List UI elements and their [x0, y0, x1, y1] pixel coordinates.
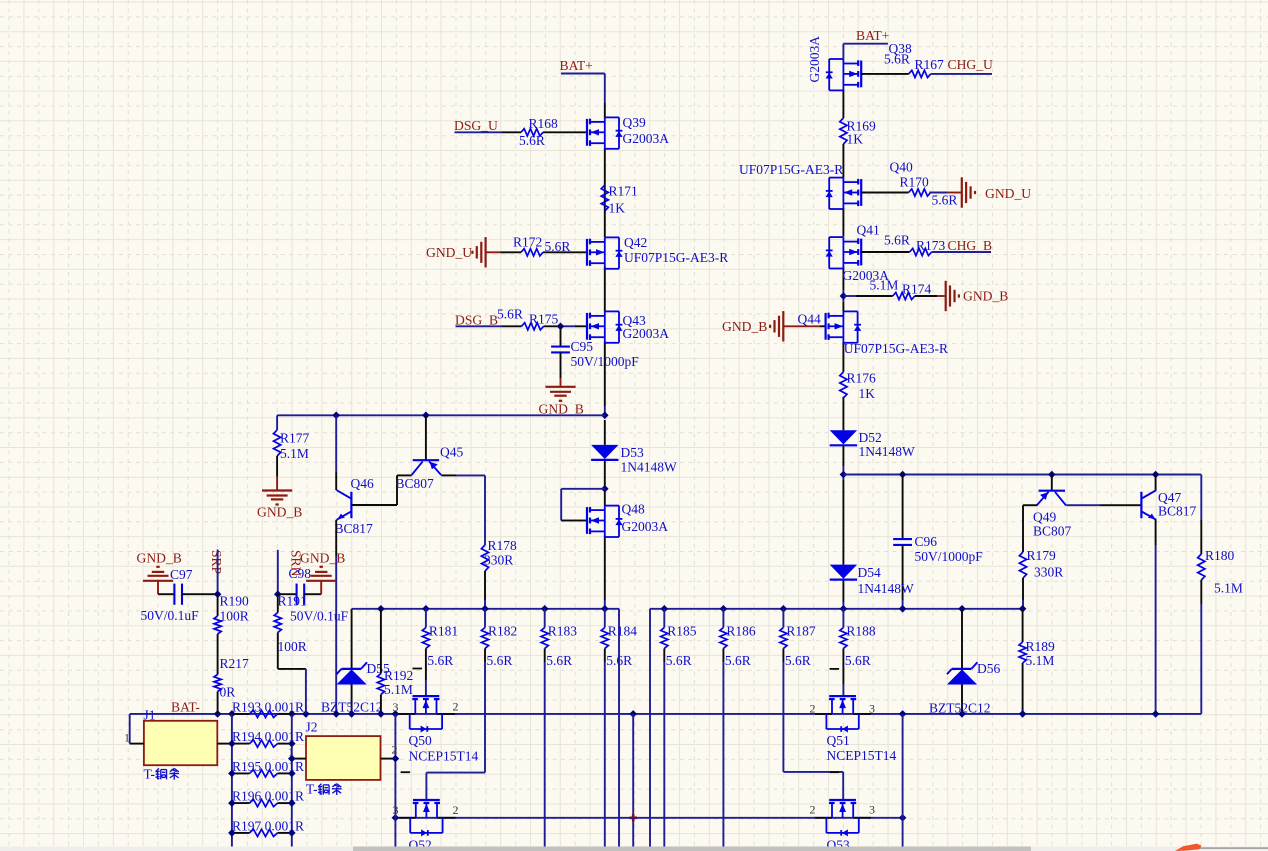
svg-text:GND_B: GND_B	[539, 402, 584, 417]
pin numbers Q52	[393, 803, 459, 817]
svg-text:BC807: BC807	[1033, 524, 1072, 539]
transistor Q43	[587, 311, 669, 342]
resistor R171	[601, 184, 638, 216]
ground GND_B under C95	[539, 387, 584, 417]
resistor R184	[601, 609, 637, 847]
wire net415 horizontal	[277, 414, 605, 416]
wire bus3	[395, 817, 902, 819]
svg-text:R170: R170	[900, 175, 930, 190]
svg-text:3: 3	[869, 702, 875, 716]
resistor R187	[780, 609, 816, 772]
wire J2 pin2	[381, 758, 396, 760]
pin numbers Q50	[393, 669, 459, 715]
svg-text:R167: R167	[915, 57, 945, 72]
svg-text:G2003A: G2003A	[622, 519, 669, 534]
svg-text:2: 2	[810, 803, 816, 817]
resistor R196	[228, 789, 304, 807]
svg-text:G2003A: G2003A	[623, 131, 670, 146]
svg-text:1K: 1K	[847, 131, 864, 146]
svg-text:R193 0.001R: R193 0.001R	[232, 699, 304, 714]
transistor Q44	[798, 311, 949, 356]
svg-text:5.6R: 5.6R	[487, 653, 513, 668]
node bus3 junctions	[392, 814, 907, 822]
svg-text:R183: R183	[548, 624, 578, 639]
svg-text:R173: R173	[916, 238, 946, 253]
svg-text:SRP: SRP	[209, 550, 224, 575]
resistor R177	[274, 415, 310, 476]
svg-text:3: 3	[869, 803, 875, 817]
wire SRN to bus2	[278, 669, 306, 714]
svg-text:1K: 1K	[859, 386, 876, 401]
node SRN junction	[274, 590, 282, 598]
svg-text:Q41: Q41	[857, 223, 880, 238]
wire J2 pin1	[292, 758, 306, 760]
svg-text:UF07P15G-AE3-R: UF07P15G-AE3-R	[844, 341, 948, 356]
node net415 Q45 junction	[422, 412, 430, 420]
resistor R173	[861, 238, 945, 256]
svg-text:GND_U: GND_U	[985, 186, 1031, 201]
resistor R193	[232, 699, 304, 717]
capacitor C97	[141, 567, 218, 623]
net label GND_B Q44	[722, 311, 826, 341]
svg-text:C95: C95	[571, 339, 594, 354]
svg-text:R179: R179	[1027, 548, 1057, 563]
net label GND_U left	[426, 237, 521, 267]
svg-text:Q50: Q50	[409, 733, 432, 748]
value G2003A vertical Q38	[807, 36, 822, 83]
capacitor C95	[551, 326, 639, 387]
wire shunt left vertical	[231, 714, 233, 847]
node bus1 junctions	[377, 605, 1026, 613]
net label DSG_U	[454, 118, 521, 133]
connector J2	[288, 719, 398, 779]
power port BAT+ right	[843, 28, 889, 44]
transistor Q45	[396, 445, 464, 491]
svg-text:3: 3	[393, 700, 399, 714]
transistor Q41	[826, 223, 910, 283]
svg-text:CHG_U: CHG_U	[948, 57, 993, 72]
svg-text:5.6R: 5.6R	[545, 239, 571, 254]
resistor R174	[843, 277, 937, 299]
resistor R185	[661, 609, 697, 847]
node net415 Q46 junction	[332, 412, 340, 420]
svg-text:1N4148W: 1N4148W	[858, 581, 914, 596]
svg-text:J2: J2	[306, 719, 318, 734]
wire Q45 base	[425, 415, 427, 460]
wire net474 horizontal	[843, 475, 1201, 521]
svg-text:2: 2	[392, 743, 398, 757]
value UF07P15G Q40	[739, 162, 843, 177]
svg-text:330R: 330R	[1034, 564, 1063, 579]
svg-text:1K: 1K	[609, 201, 626, 216]
wire Q47 emitter	[1155, 520, 1157, 714]
resistor R189	[1019, 609, 1055, 714]
transistor Q40	[826, 160, 913, 210]
ground GND_B C97	[137, 551, 182, 595]
wire Q46 emitter	[335, 520, 337, 714]
wire Q46 base	[351, 475, 397, 505]
transistor Q53	[815, 800, 871, 851]
svg-text:330R: 330R	[484, 553, 513, 568]
svg-text:D53: D53	[621, 445, 644, 460]
svg-text:Q44: Q44	[798, 311, 821, 326]
node C95 junction	[557, 323, 565, 331]
svg-text:R217: R217	[220, 656, 250, 671]
svg-text:Q42: Q42	[624, 235, 647, 250]
svg-text:0R: 0R	[220, 685, 236, 700]
svg-text:50V/0.1uF: 50V/0.1uF	[290, 608, 349, 623]
svg-text:50V/0.1uF: 50V/0.1uF	[141, 608, 200, 623]
svg-text:GND_B: GND_B	[257, 505, 302, 520]
net label GND_B right	[937, 281, 1008, 311]
transistor Q42	[587, 235, 728, 269]
wire Q48 gate loop	[561, 489, 605, 521]
diode D52	[830, 430, 915, 459]
svg-text:D54: D54	[858, 565, 881, 580]
svg-text:50V/1000pF: 50V/1000pF	[915, 549, 984, 564]
transistor Q49	[1033, 491, 1072, 539]
resistor R172	[513, 234, 587, 256]
resistor R181	[422, 609, 458, 696]
svg-text:C98: C98	[289, 566, 312, 581]
wire bus2 BAT-	[130, 713, 1202, 715]
net label BAT-	[171, 699, 200, 714]
svg-text:CHG_B: CHG_B	[948, 238, 993, 253]
wire J2pin2 vertical	[394, 714, 396, 847]
zener diode D56	[929, 609, 1000, 716]
scrollbar	[0, 847, 1268, 851]
svg-text:2: 2	[810, 702, 816, 716]
pin numbers Q53	[810, 803, 876, 817]
resistor R191	[274, 594, 307, 669]
svg-text:NCEP15T14: NCEP15T14	[409, 748, 479, 763]
svg-text:R188: R188	[846, 624, 876, 639]
svg-text:5.1M: 5.1M	[1214, 581, 1243, 596]
svg-text:R175: R175	[529, 312, 559, 327]
svg-text:5.1M: 5.1M	[280, 446, 309, 461]
svg-text:NCEP15T14: NCEP15T14	[827, 748, 897, 763]
svg-text:R182: R182	[488, 624, 517, 639]
svg-text:5.1M: 5.1M	[1026, 653, 1055, 668]
svg-text:BAT+: BAT+	[560, 58, 593, 73]
resistor R190	[214, 594, 249, 675]
node Q47 junction	[1152, 471, 1160, 479]
transistor Q38	[826, 41, 912, 90]
svg-text:J1: J1	[144, 707, 156, 722]
resistor R183	[541, 609, 577, 847]
svg-text:5.6R: 5.6R	[725, 653, 751, 668]
node Q49 junction	[1048, 471, 1056, 479]
svg-text:Q40: Q40	[890, 160, 913, 175]
svg-text:5.1M: 5.1M	[384, 682, 413, 697]
svg-text:GND_B: GND_B	[137, 551, 182, 566]
svg-text:GND_B: GND_B	[963, 289, 1008, 304]
svg-text:D52: D52	[859, 430, 882, 445]
node rail-415 junction	[601, 412, 609, 420]
svg-text:DSG_B: DSG_B	[455, 313, 498, 328]
wire Q47 collector	[1155, 475, 1157, 491]
resistor R186	[720, 609, 756, 847]
resistor R167	[861, 57, 944, 77]
svg-text:Q49: Q49	[1033, 510, 1056, 525]
net label DSG_B	[455, 307, 523, 328]
svg-text:D56: D56	[977, 661, 1000, 676]
wire Q45 emitter to R178	[441, 475, 485, 545]
svg-text:R190: R190	[220, 594, 250, 609]
wire left rail	[604, 74, 606, 609]
svg-text:1N4148W: 1N4148W	[859, 444, 915, 459]
capacitor C98	[278, 566, 349, 623]
svg-text:5.6R: 5.6R	[546, 653, 572, 668]
svg-text:R192: R192	[384, 668, 413, 683]
transistor Q52	[399, 800, 456, 851]
resistor R179	[1019, 548, 1063, 609]
svg-text:3: 3	[393, 803, 399, 817]
svg-text:5.6R: 5.6R	[932, 192, 958, 207]
power port BAT+ left	[560, 58, 605, 73]
svg-text:DSG_U: DSG_U	[454, 118, 498, 133]
svg-text:Q51: Q51	[827, 733, 850, 748]
svg-text:GND_B: GND_B	[722, 319, 767, 334]
resistor R170	[861, 175, 957, 208]
net label SRP	[209, 550, 224, 595]
wire Q49 collector to Q47 base	[1066, 504, 1141, 506]
svg-text:100R: 100R	[220, 608, 249, 623]
label T-copper J1	[144, 766, 180, 781]
wire right rail	[842, 44, 844, 609]
svg-text:Q46: Q46	[351, 476, 374, 491]
connector J1	[124, 707, 217, 765]
svg-text:T-: T-	[306, 782, 318, 797]
diode D53	[591, 445, 677, 474]
svg-text:R178: R178	[488, 538, 518, 553]
svg-text:Q39: Q39	[623, 115, 646, 130]
svg-text:5.6R: 5.6R	[884, 51, 910, 66]
wire shunt right vertical	[291, 714, 293, 847]
svg-text:GND_U: GND_U	[426, 245, 472, 260]
svg-text:BC817: BC817	[335, 521, 374, 536]
wire bus1 segment B	[650, 609, 1023, 847]
resistor R175	[522, 312, 588, 330]
transistor Q48	[587, 502, 668, 538]
net label CHG_U	[931, 57, 993, 74]
svg-text:5.6R: 5.6R	[666, 653, 692, 668]
zener diode D55	[321, 609, 390, 715]
svg-text:R186: R186	[726, 624, 756, 639]
diode D54	[830, 565, 914, 596]
svg-text:Q45: Q45	[440, 445, 463, 460]
svg-text:5.6R: 5.6R	[519, 133, 545, 148]
ground GND_B under R177	[257, 477, 302, 520]
resistor R182	[481, 609, 517, 773]
svg-text:UF07P15G-AE3-R: UF07P15G-AE3-R	[624, 250, 728, 265]
resistor R188	[840, 609, 876, 696]
svg-text:BC817: BC817	[1158, 504, 1197, 519]
node rail-474 junction	[840, 471, 848, 479]
svg-text:BAT-: BAT-	[171, 699, 200, 714]
transistor Q46	[335, 476, 374, 536]
node SRP junction	[214, 590, 222, 598]
transistor Q47	[1141, 490, 1196, 520]
svg-text:R174: R174	[902, 281, 932, 296]
svg-text:50V/1000pF: 50V/1000pF	[571, 354, 640, 369]
label T-copper J2	[306, 782, 342, 797]
svg-text:R191: R191	[278, 594, 307, 609]
svg-text:5.6R: 5.6R	[884, 233, 910, 248]
logo fragment	[1175, 844, 1202, 851]
wire Q53 gate path	[783, 772, 843, 800]
node J2 pin1 junction	[288, 755, 399, 763]
wire Q46 collector	[335, 415, 337, 490]
svg-text:UF07P15G-AE3-R: UF07P15G-AE3-R	[739, 162, 843, 177]
resistor R168	[519, 116, 587, 148]
node bus2 junctions	[214, 710, 1160, 718]
svg-text:5.6R: 5.6R	[606, 653, 632, 668]
wire J1 pin2	[217, 743, 232, 745]
svg-text:R176: R176	[847, 370, 877, 385]
resistor R176	[840, 370, 876, 401]
resistor R217	[214, 656, 249, 714]
svg-text:R181: R181	[429, 624, 458, 639]
transistor Q51	[815, 696, 897, 763]
net label GND_U right	[929, 177, 1031, 207]
svg-text:5.6R: 5.6R	[785, 653, 811, 668]
svg-text:R187: R187	[786, 624, 816, 639]
pin tick Q53	[830, 771, 840, 773]
svg-text:R185: R185	[667, 624, 697, 639]
svg-text:C97: C97	[170, 567, 193, 582]
svg-text:Q48: Q48	[622, 502, 645, 517]
svg-text:R168: R168	[529, 116, 559, 131]
net label CHG_B	[932, 238, 992, 253]
wire bus2-down line	[632, 714, 634, 847]
no-ERC marker	[630, 814, 638, 822]
svg-text:1N4148W: 1N4148W	[621, 459, 677, 474]
svg-text:5.1M: 5.1M	[870, 277, 899, 292]
svg-text:2: 2	[453, 803, 459, 817]
svg-text:5.6R: 5.6R	[427, 653, 453, 668]
resistor R169	[840, 118, 876, 146]
node rail-489 junction	[601, 485, 609, 493]
svg-text:BC807: BC807	[396, 476, 435, 491]
transistor Q50	[399, 696, 479, 763]
resistor R197	[228, 818, 304, 836]
svg-text:5.6R: 5.6R	[497, 307, 523, 322]
pin tick Q52	[401, 771, 411, 773]
wire Q49 emitter to R179	[1023, 505, 1037, 552]
node rail-296 junction	[840, 292, 848, 300]
net label SRN	[278, 550, 304, 594]
resistor R195	[228, 759, 304, 777]
resistor R180	[1198, 520, 1243, 714]
svg-text:BAT+: BAT+	[856, 28, 889, 43]
wire bus1 segment A	[352, 609, 619, 847]
svg-text:R184: R184	[608, 624, 638, 639]
transistor Q39	[587, 115, 669, 149]
resistor R192	[377, 609, 413, 714]
wire Q49 base	[1051, 475, 1053, 491]
svg-text:T-: T-	[144, 766, 156, 781]
wire J1 pin1	[130, 714, 144, 744]
wire Q51 source down	[902, 714, 904, 847]
ground GND_B C98	[300, 551, 345, 595]
resistor R194	[228, 729, 304, 747]
svg-text:GND_B: GND_B	[300, 551, 345, 566]
wire Q45 collector link	[397, 474, 412, 476]
svg-text:5.6R: 5.6R	[845, 653, 871, 668]
capacitor C96	[893, 471, 983, 609]
svg-text:100R: 100R	[278, 639, 307, 654]
svg-text:R171: R171	[609, 184, 638, 199]
svg-text:G2003A: G2003A	[623, 326, 670, 341]
svg-text:R189: R189	[1026, 639, 1056, 654]
wire Q52 gate path	[426, 773, 485, 800]
svg-text:R180: R180	[1205, 548, 1235, 563]
svg-text:C96: C96	[915, 534, 938, 549]
svg-text:G2003A: G2003A	[807, 36, 822, 83]
resistor R178	[481, 538, 517, 609]
svg-text:R172: R172	[513, 234, 542, 249]
svg-text:2: 2	[453, 700, 459, 714]
svg-text:R177: R177	[280, 431, 310, 446]
pin numbers Q51	[810, 669, 876, 716]
